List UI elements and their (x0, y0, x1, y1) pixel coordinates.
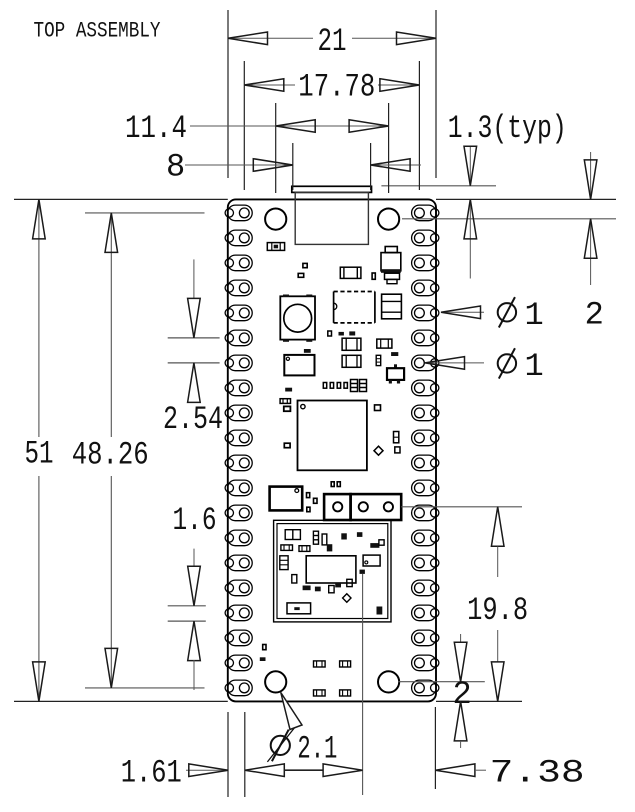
antenna feed line (362, 574, 364, 795)
board top edge extension right (436, 198, 616, 200)
crystal X1 (284, 355, 314, 376)
leader dia 1 upper (441, 311, 484, 313)
dimension 2 top right (590, 152, 592, 199)
tiny squares right of flash (307, 493, 310, 498)
debug header J1 (324, 494, 351, 520)
RP2040 chip U2 (298, 401, 367, 471)
svg-text:TOP ASSEMBLY: TOP ASSEMBLY (34, 18, 161, 43)
diode D1 stack top-right (385, 247, 397, 253)
tiny part left of diode (372, 273, 375, 279)
module small parts (285, 530, 327, 545)
board bottom edge extension left (14, 700, 228, 702)
CYW43439 chip (306, 556, 356, 583)
dimension 8 (185, 164, 293, 166)
ext line pin col left (243, 61, 245, 190)
svg-text:1.61: 1.61 (121, 755, 182, 792)
pad row1 extension left (85, 212, 205, 214)
crystal cap bottom (285, 388, 292, 392)
svg-text:2.1: 2.1 (297, 730, 337, 767)
svg-text:51: 51 (25, 436, 54, 473)
small resistor below (298, 273, 304, 277)
svg-text:8: 8 (166, 149, 185, 186)
module small IC right (363, 555, 380, 566)
svg-text:17.78: 17.78 (298, 69, 375, 106)
USB lip top reference line (381, 185, 496, 187)
leader dia 2.1 (267, 727, 295, 762)
transistor Q1 SOT-23 (394, 364, 397, 368)
ext line bottom board left (227, 712, 229, 797)
dimension 11.4 (190, 125, 389, 127)
USB connector body (295, 192, 368, 244)
svg-text:21: 21 (318, 23, 347, 60)
mounting hole top line (402, 218, 616, 220)
dimension 19.8 (491, 507, 504, 547)
ext line board left (227, 10, 229, 178)
mounting hole top-left (265, 209, 286, 230)
module diamond (343, 594, 351, 602)
wireless module inner border (277, 524, 388, 619)
pad row20 extension left (85, 687, 205, 689)
wireless module outer shield (274, 520, 391, 622)
svg-text:1.3(typ): 1.3(typ) (448, 110, 567, 147)
mounting hole bottom-right (378, 671, 399, 692)
leader dia 1 lower (425, 362, 484, 364)
small vertical 3-seg part (376, 355, 381, 365)
crystal cap top (304, 349, 311, 353)
left castellated pads (225, 205, 252, 696)
two tiny squares above debug header (331, 482, 334, 487)
ext line mount left (275, 103, 277, 193)
module tiny square (379, 540, 384, 545)
bottom caps row 1 (314, 661, 326, 667)
ext line bottom pin col (244, 712, 246, 797)
USB connector shield lip (292, 186, 372, 192)
BOOTSEL button (280, 296, 315, 339)
dimension 2.54 (168, 337, 220, 339)
dimension 7.38 (435, 764, 475, 777)
module logo box (287, 603, 311, 614)
module flat parts (281, 545, 293, 551)
board outline (228, 199, 436, 701)
small vertical part right of RP2040 (394, 432, 399, 443)
svg-text:7.38: 7.38 (490, 755, 585, 792)
bottom caps row 2 (314, 690, 326, 696)
board bottom edge extension right (436, 700, 522, 702)
antenna feed part (360, 570, 365, 574)
ext line bottom board right (434, 707, 436, 789)
capacitor right of USB (340, 267, 361, 278)
svg-text:1: 1 (525, 348, 544, 385)
mounting hole bottom-left (265, 671, 286, 692)
svg-text:1.6: 1.6 (173, 502, 217, 539)
part below resistor (284, 406, 291, 411)
resistor left of RP2040 (280, 399, 290, 404)
resistor row R group (323, 380, 366, 392)
parts below module left (263, 645, 266, 650)
module part right-bottom (377, 607, 383, 615)
tiny part below CC (391, 352, 398, 356)
dimension 51 (38, 199, 40, 437)
diamond part (374, 446, 383, 455)
tiny square part (395, 447, 400, 453)
tiny part left of RP2040 (284, 443, 290, 448)
dimension 21 (228, 37, 313, 39)
right castellated pads (412, 205, 439, 696)
debug header line (401, 506, 522, 508)
capacitor CA (342, 338, 361, 350)
ext line board right (435, 10, 437, 178)
inductor right of U1 (382, 294, 402, 319)
flash chip U3 (270, 487, 303, 511)
small resistor R near USB left (303, 263, 307, 267)
regulator IC U1 (8-pin) (334, 292, 375, 323)
ext line pin col right (418, 61, 420, 190)
dimension line to antenna feed (284, 769, 323, 771)
dimension 17.78 (244, 84, 295, 86)
svg-text:48.26: 48.26 (72, 437, 149, 474)
board top edge extension left (14, 198, 228, 200)
capacitor CB (342, 355, 361, 367)
svg-text:19.8: 19.8 (467, 592, 528, 629)
fuse/filter component near top-left (267, 243, 284, 251)
dimension 2 bottom right (460, 634, 462, 642)
mounting hole bottom line (399, 681, 485, 683)
tiny parts row mid-left (328, 331, 332, 336)
svg-text:11.4: 11.4 (125, 110, 187, 147)
svg-text:2.54: 2.54 (163, 401, 223, 438)
tiny part right of RP2040 top (375, 405, 381, 411)
module left vertical part (280, 556, 288, 570)
mounting hole top-right (378, 209, 399, 230)
ext line usb left (292, 143, 294, 190)
ext line mount right (388, 103, 390, 193)
capacitor CC (377, 339, 392, 348)
svg-text:1: 1 (525, 297, 544, 334)
dimension 48.26 (110, 213, 112, 437)
ext line usb right (370, 143, 372, 190)
svg-text:2: 2 (585, 297, 604, 334)
module bottom cluster (303, 586, 311, 591)
